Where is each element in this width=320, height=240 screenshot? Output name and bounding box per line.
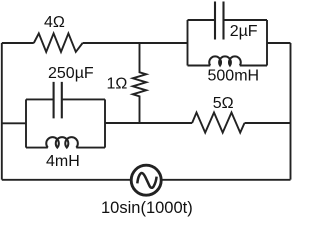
source V1 ac circle [131, 165, 161, 195]
wire: top edge leads of capacitor C 250uF [26, 98, 105, 100]
wire: middle wire from block to 5ohm resistor [105, 122, 192, 124]
svg-text:500mH: 500mH [208, 68, 260, 85]
node: top-right parallel block left edge [187, 20, 189, 66]
wire: right vertical wire [290, 43, 292, 180]
inductor L 500mH [209, 56, 241, 65]
node: left parallel block right edge [104, 99, 106, 147]
capacitor C 2uF plates [215, 2, 224, 40]
node: top-right parallel block right edge [266, 20, 268, 66]
svg-text:4mH: 4mH [46, 153, 80, 170]
node: left parallel block left edge [25, 99, 27, 147]
wire: top wire right segment to parallel block [83, 42, 188, 44]
inductor L 4mH [46, 137, 78, 147]
wire: bottom wire right of source [162, 179, 291, 181]
svg-text:4Ω: 4Ω [44, 14, 65, 31]
resistor R 1ohm vertical with leads [133, 43, 146, 123]
wire: left vertical wire [1, 43, 3, 180]
wire: top wire left segment [2, 42, 34, 44]
wire: bottom edge leads of inductor L 500mH [188, 65, 268, 67]
wire: top edge leads of capacitor C 2uF [188, 19, 268, 21]
wire: middle wire from 5ohm to right wire [245, 122, 291, 124]
svg-text:2µF: 2µF [230, 23, 258, 40]
resistor R 4ohm [34, 33, 83, 52]
svg-text:10sin(1000t): 10sin(1000t) [101, 199, 193, 217]
svg-text:1Ω: 1Ω [107, 76, 128, 93]
svg-text:5Ω: 5Ω [213, 95, 234, 112]
wire: bottom edge leads of inductor L 4mH [26, 147, 105, 149]
resistor R 5ohm [192, 113, 244, 133]
svg-text:250µF: 250µF [48, 65, 94, 82]
wire: bottom wire left of source [2, 179, 131, 181]
wire: stub from top-right block to right wire [267, 42, 291, 44]
source V1 sine symbol [137, 173, 156, 188]
wire: stub from left wire to left parallel block [2, 122, 26, 124]
capacitor C 250uF plates [54, 82, 62, 119]
